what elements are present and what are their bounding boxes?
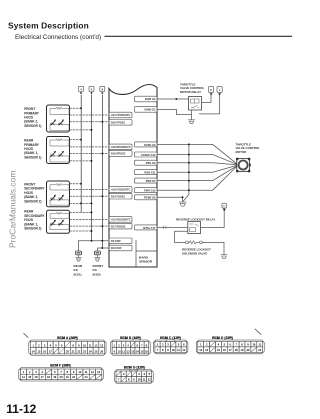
svg-text:SENSOR: SENSOR <box>139 260 153 264</box>
svg-text:PW3 G5: PW3 G5 <box>146 179 156 183</box>
svg-text:IGMD G3: IGMD G3 <box>145 108 157 112</box>
svg-text:A15 RSO2SHTC: A15 RSO2SHTC <box>111 218 131 222</box>
svg-text:D17 RSO2S: D17 RSO2S <box>111 224 126 228</box>
svg-text:SENSOR 1): SENSOR 1) <box>24 124 41 128</box>
svg-text:D18 RPO2S: D18 RPO2S <box>111 152 126 156</box>
svg-text:B: B <box>210 88 212 92</box>
svg-text:PW1 G6: PW1 G6 <box>146 161 156 165</box>
svg-text:ECM A (26P): ECM A (26P) <box>58 336 77 340</box>
svg-text:ProCarManuals.com: ProCarManuals.com <box>7 171 17 248</box>
svg-text:11-12: 11-12 <box>6 402 36 416</box>
svg-text:System Description: System Description <box>8 21 89 31</box>
svg-text:MOTOR: MOTOR <box>236 150 248 154</box>
svg-text:D14 FSO2S: D14 FSO2S <box>111 194 125 198</box>
svg-text:ECM G (12P): ECM G (12P) <box>125 366 145 370</box>
svg-text:A16 FSO2SHTC: A16 FSO2SHTC <box>111 188 130 192</box>
svg-text:CONV G9: CONV G9 <box>144 143 156 147</box>
svg-text:D2 KSR: D2 KSR <box>111 239 121 243</box>
svg-text:IGMF G2: IGMF G2 <box>145 97 156 101</box>
svg-text:MOTOR RELAY: MOTOR RELAY <box>180 90 201 94</box>
svg-text:SENSOR 2): SENSOR 2) <box>24 199 41 203</box>
svg-text:SENSOR 2): SENSOR 2) <box>24 227 41 231</box>
svg-text:PW2 G11: PW2 G11 <box>144 171 156 175</box>
svg-text:SOLENOID VALVE: SOLENOID VALVE <box>182 252 207 256</box>
svg-text:PW4 G12: PW4 G12 <box>144 189 156 193</box>
svg-text:D16 FPO2S: D16 FPO2S <box>111 121 125 125</box>
svg-text:ECM F (26P): ECM F (26P) <box>51 364 70 368</box>
svg-text:(KS1): (KS1) <box>74 272 82 276</box>
svg-text:F: F <box>223 204 225 208</box>
svg-text:ECM B (16P): ECM B (16P) <box>121 336 141 340</box>
svg-text:REVERSE LOCKOUT RELAY: REVERSE LOCKOUT RELAY <box>176 217 215 221</box>
svg-text:A23 RPO2SHTC: A23 RPO2SHTC <box>111 145 131 149</box>
svg-text:(KS2): (KS2) <box>93 272 101 276</box>
svg-text:A21 FPO2SHTC: A21 FPO2SHTC <box>111 113 130 117</box>
svg-text:CONV2 G10: CONV2 G10 <box>141 153 156 157</box>
svg-text:MTSL F17: MTSL F17 <box>143 226 156 230</box>
svg-text:ECM C (12P): ECM C (12P) <box>161 336 181 340</box>
svg-text:ECM D (22P): ECM D (22P) <box>213 336 233 340</box>
svg-text:PGM2 G8: PGM2 G8 <box>144 196 156 200</box>
svg-text:D12 KSF: D12 KSF <box>111 246 122 250</box>
svg-text:Electrical Connections (cont'd: Electrical Connections (cont'd) <box>15 34 101 41</box>
svg-text:SENSOR 1): SENSOR 1) <box>24 155 41 159</box>
